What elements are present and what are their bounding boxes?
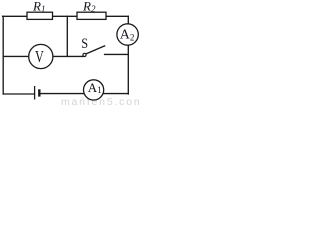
svg-text:S: S bbox=[81, 35, 88, 51]
svg-text:V: V bbox=[35, 48, 44, 67]
